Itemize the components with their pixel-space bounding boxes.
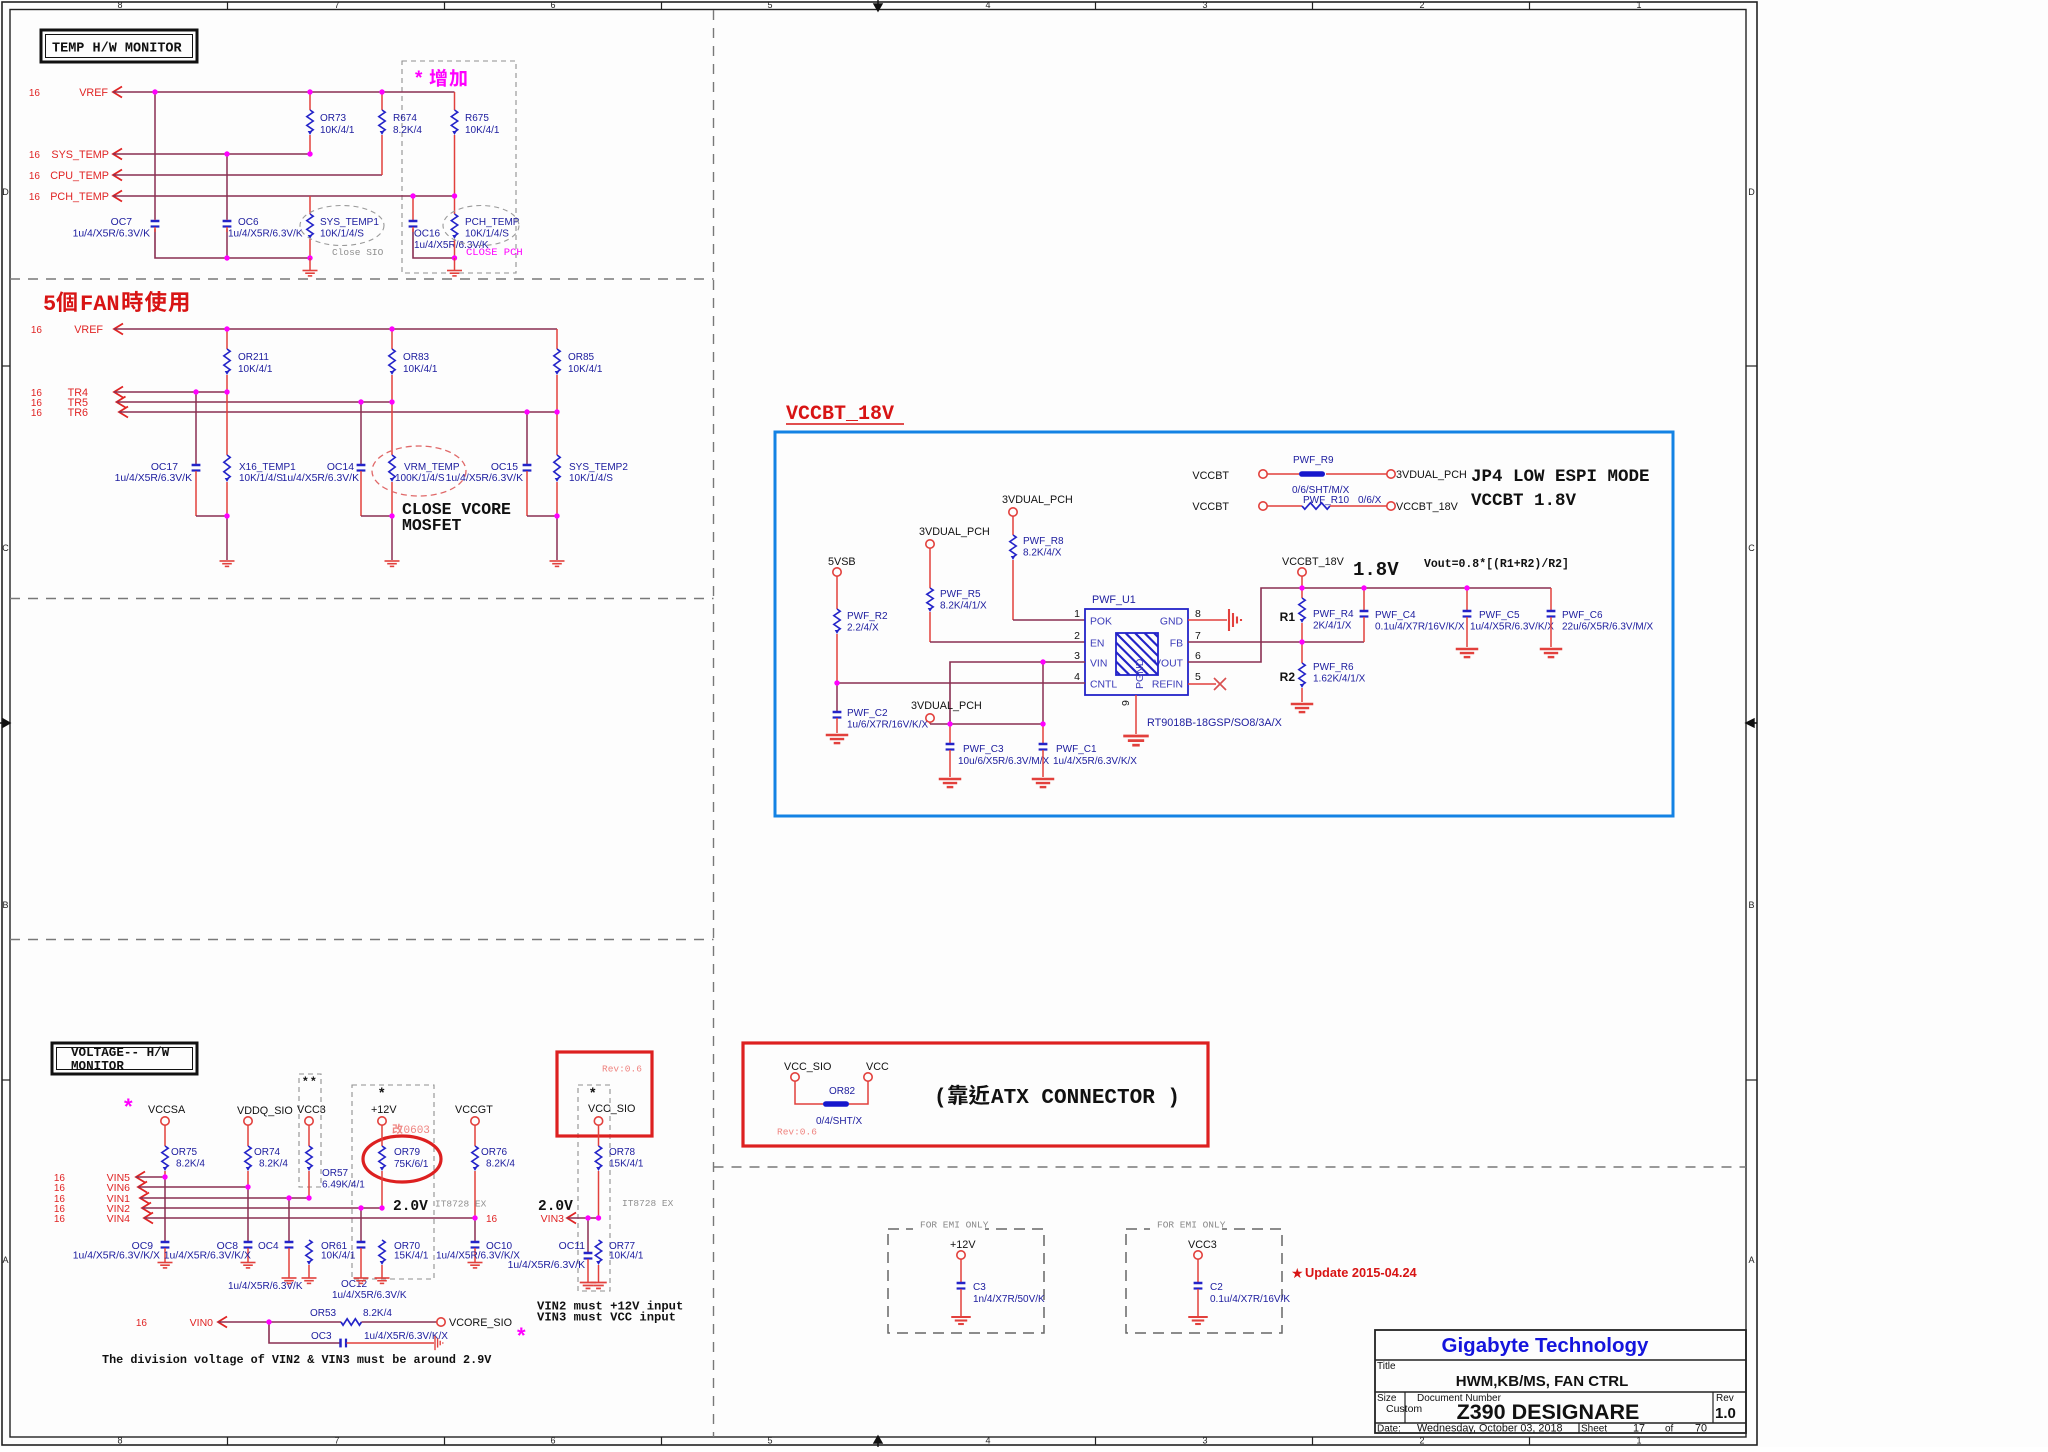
svg-text:1n/4/X7R/50V/K: 1n/4/X7R/50V/K bbox=[973, 1294, 1045, 1305]
resistor OR73 bbox=[307, 92, 355, 154]
svg-text:REFIN: REFIN bbox=[1152, 680, 1183, 691]
title box VOLTAGE-- H/W MONITOR bbox=[52, 1043, 197, 1074]
wire OC6 column bbox=[226, 154, 228, 219]
power-ground symbol (pin8) bbox=[1228, 609, 1230, 631]
svg-text:10K/4/1: 10K/4/1 bbox=[238, 364, 273, 375]
resistor OR82 (0 ohm) bbox=[795, 1081, 868, 1127]
svg-text:of: of bbox=[1665, 1424, 1674, 1435]
svg-text:7: 7 bbox=[1195, 630, 1201, 642]
svg-text:SYS_TEMP: SYS_TEMP bbox=[51, 149, 109, 161]
svg-text:9: 9 bbox=[1120, 700, 1132, 706]
svg-text:OC11: OC11 bbox=[559, 1241, 586, 1252]
svg-text:Wednesday, October 03, 2018: Wednesday, October 03, 2018 bbox=[1417, 1423, 1562, 1435]
svg-text:MOSFET: MOSFET bbox=[402, 516, 462, 535]
wire 3VDUAL bottom rail bbox=[930, 723, 1043, 725]
resistor OR57 bbox=[306, 1125, 365, 1198]
net SYS_TEMP bbox=[29, 149, 310, 162]
net label VCCBT (row1) bbox=[1192, 470, 1267, 482]
svg-text:16: 16 bbox=[54, 1214, 66, 1225]
power VCC3 bbox=[297, 1104, 326, 1125]
resistor SYS_TEMP1 bbox=[307, 196, 380, 258]
svg-text:PWF_R4: PWF_R4 bbox=[1313, 609, 1354, 620]
svg-text:8: 8 bbox=[117, 1436, 122, 1446]
power VCCGT bbox=[455, 1104, 493, 1125]
power +12V (EMI) bbox=[950, 1239, 976, 1259]
ground (OC8) bbox=[241, 1262, 256, 1264]
svg-text:1.0: 1.0 bbox=[1715, 1405, 1736, 1422]
svg-text:The division voltage of VIN2 &: The division voltage of VIN2 & VIN3 must… bbox=[102, 1353, 492, 1367]
svg-text:16: 16 bbox=[29, 192, 41, 203]
wire OC9 column bbox=[164, 1177, 166, 1241]
svg-text:PWF_R9: PWF_R9 bbox=[1293, 455, 1334, 466]
svg-text:PWF_C1: PWF_C1 bbox=[1056, 744, 1097, 755]
resistor OR78 bbox=[595, 1125, 644, 1218]
svg-text:1: 1 bbox=[1074, 608, 1080, 620]
svg-text:★: ★ bbox=[1291, 1265, 1304, 1281]
ground (TEMP right) bbox=[454, 258, 456, 270]
resistor PWF_R2 bbox=[834, 576, 888, 683]
resistor OR74 bbox=[245, 1125, 289, 1187]
svg-text:1: 1 bbox=[1636, 1436, 1641, 1446]
svg-text:Rev:0.6: Rev:0.6 bbox=[777, 1127, 817, 1138]
svg-text:JP4 LOW ESPI MODE: JP4 LOW ESPI MODE bbox=[1471, 467, 1650, 487]
wire OC10 column bbox=[474, 1218, 476, 1241]
svg-text:16: 16 bbox=[54, 1183, 66, 1194]
svg-text:17: 17 bbox=[1633, 1423, 1645, 1435]
svg-text:VCC3: VCC3 bbox=[297, 1104, 326, 1116]
resistor PWF_R8 bbox=[1010, 516, 1064, 620]
svg-text:EN: EN bbox=[1090, 639, 1104, 650]
svg-text:OC14: OC14 bbox=[327, 462, 354, 473]
svg-text:B: B bbox=[1748, 900, 1754, 910]
svg-text:D: D bbox=[1748, 187, 1755, 197]
svg-text:2: 2 bbox=[1419, 0, 1424, 10]
svg-text:D: D bbox=[2, 187, 9, 197]
svg-text:OR211: OR211 bbox=[238, 352, 269, 363]
power 3VDUAL_PCH (PWF_R8) bbox=[1002, 494, 1073, 516]
svg-text:5: 5 bbox=[1195, 671, 1201, 683]
resistor OR70 bbox=[379, 1240, 429, 1278]
svg-text:10K/1/4/S: 10K/1/4/S bbox=[239, 473, 283, 484]
ground (PGND) bbox=[1123, 735, 1149, 738]
resistor PWF_R6 (R2) bbox=[1280, 642, 1366, 702]
resistor OR79 bbox=[379, 1125, 429, 1208]
svg-text:1u/4/X5R/6.3V/K: 1u/4/X5R/6.3V/K bbox=[115, 473, 192, 484]
svg-text:2.0V: 2.0V bbox=[393, 1199, 428, 1215]
svg-text:10K/4/1: 10K/4/1 bbox=[403, 364, 438, 375]
net VIN0 bbox=[136, 1317, 341, 1330]
svg-text:VOLTAGE-- H/W: VOLTAGE-- H/W bbox=[71, 1046, 170, 1060]
wire OC7 column bbox=[154, 92, 156, 219]
svg-text:10K/1/4/S: 10K/1/4/S bbox=[320, 229, 364, 240]
svg-text:(: ( bbox=[934, 1087, 947, 1110]
svg-text:PGND: PGND bbox=[1134, 658, 1146, 689]
note * zeng-jia (magenta) bbox=[415, 68, 467, 89]
svg-text:VIN0: VIN0 bbox=[190, 1317, 214, 1329]
svg-text:16: 16 bbox=[29, 171, 41, 182]
net VIN1 bbox=[54, 1193, 309, 1206]
svg-text:TR6: TR6 bbox=[68, 407, 88, 419]
capacitor PWF_C6 bbox=[1547, 588, 1654, 647]
svg-text:FOR EMI ONLY: FOR EMI ONLY bbox=[1157, 1220, 1226, 1231]
svg-text:VCCBT 1.8V: VCCBT 1.8V bbox=[1471, 491, 1577, 511]
svg-text:Update 2015-04.24: Update 2015-04.24 bbox=[1305, 1265, 1418, 1280]
capacitor PWF_C4 bbox=[1360, 588, 1465, 642]
svg-text:Rev: Rev bbox=[1716, 1393, 1734, 1404]
svg-text:10K/4/1: 10K/4/1 bbox=[609, 1251, 644, 1262]
svg-text:*: * bbox=[124, 1094, 133, 1119]
net VREF (FAN) bbox=[31, 324, 557, 337]
red box (ATX connector note) bbox=[743, 1043, 1208, 1146]
ground (PWF_C5) bbox=[1456, 648, 1479, 650]
svg-text:*: * bbox=[590, 1084, 596, 1100]
svg-text:4: 4 bbox=[985, 1436, 990, 1446]
svg-text:0/4/SHT/X: 0/4/SHT/X bbox=[816, 1116, 862, 1127]
power VCC_SIO bbox=[588, 1103, 635, 1125]
svg-text:CLOSE PCH: CLOSE PCH bbox=[466, 247, 523, 259]
svg-text:3VDUAL_PCH: 3VDUAL_PCH bbox=[919, 526, 990, 538]
junction dots (TEMP) bbox=[152, 89, 457, 260]
svg-text:PCH_TEMP: PCH_TEMP bbox=[465, 217, 520, 228]
svg-text:0/6/X: 0/6/X bbox=[1358, 495, 1382, 506]
ground (PWF_R6) bbox=[1291, 703, 1314, 705]
svg-text:R1: R1 bbox=[1280, 610, 1296, 624]
wire CNTL net bbox=[837, 682, 1085, 684]
capacitor OC14 bbox=[282, 462, 366, 516]
dashed box VCC_SIO column bbox=[578, 1085, 610, 1291]
svg-text:0.1u/4/X7R/16V/K/X: 0.1u/4/X7R/16V/K/X bbox=[1375, 622, 1465, 633]
power 3VDUAL_PCH (PWF_R5) bbox=[919, 526, 990, 548]
svg-text:OC17: OC17 bbox=[151, 462, 178, 473]
power 5VSB bbox=[828, 556, 856, 576]
svg-text:ATX CONNECTOR ): ATX CONNECTOR ) bbox=[991, 1087, 1180, 1110]
svg-text:CNTL: CNTL bbox=[1090, 680, 1117, 691]
wire EN net bbox=[930, 641, 1085, 643]
ground (SYS_TEMP2) bbox=[550, 560, 565, 562]
svg-text:VCC_SIO: VCC_SIO bbox=[784, 1061, 831, 1073]
svg-text:OR75: OR75 bbox=[171, 1147, 198, 1158]
svg-text:10K/1/4/S: 10K/1/4/S bbox=[465, 229, 509, 240]
svg-text:OC3: OC3 bbox=[311, 1331, 332, 1342]
svg-text:PWF_C2: PWF_C2 bbox=[847, 708, 888, 719]
resistor OR83 bbox=[389, 329, 438, 402]
capacitor PWF_C5 bbox=[1463, 588, 1555, 647]
svg-text:PWF_C3: PWF_C3 bbox=[963, 744, 1004, 755]
svg-text:Title: Title bbox=[1377, 1361, 1396, 1372]
svg-text:*: * bbox=[379, 1084, 385, 1100]
power +12V bbox=[371, 1104, 397, 1125]
junction dots (FAN) bbox=[193, 326, 559, 518]
resistor OR77 bbox=[595, 1240, 644, 1282]
svg-text:16: 16 bbox=[136, 1318, 148, 1329]
capacitor OC9 bbox=[73, 1241, 170, 1262]
svg-text:Gigabyte Technology: Gigabyte Technology bbox=[1442, 1334, 1650, 1357]
svg-text:5VSB: 5VSB bbox=[828, 556, 856, 568]
section title VCCBT_18V bbox=[786, 403, 904, 426]
net PCH_TEMP bbox=[29, 191, 455, 204]
capacitor OC10 bbox=[436, 1241, 520, 1262]
frame box (blue) bbox=[775, 432, 1673, 816]
header 5 FAN usage (red) bbox=[43, 291, 188, 317]
svg-text:VCCBT: VCCBT bbox=[1192, 470, 1229, 482]
svg-text:VCC_SIO: VCC_SIO bbox=[588, 1103, 635, 1115]
svg-text:POK: POK bbox=[1090, 617, 1112, 628]
junction dots (VOLTAGE) bbox=[162, 1174, 601, 1220]
svg-text:8: 8 bbox=[117, 0, 122, 10]
svg-text:0.1u/4/X7R/16V/K: 0.1u/4/X7R/16V/K bbox=[1210, 1294, 1290, 1305]
svg-text:IT8728 EX: IT8728 EX bbox=[622, 1198, 674, 1209]
wire FB net bbox=[1188, 641, 1364, 643]
svg-text:5: 5 bbox=[767, 1436, 772, 1446]
resistor OR85 bbox=[554, 329, 603, 412]
svg-text:X16_TEMP1: X16_TEMP1 bbox=[239, 462, 296, 473]
svg-text:VDDQ_SIO: VDDQ_SIO bbox=[237, 1105, 293, 1117]
wire GND pin8 lead bbox=[1188, 619, 1227, 621]
svg-text:CPU_TEMP: CPU_TEMP bbox=[50, 170, 109, 182]
svg-text:1u/4/X5R/6.3V/K/X: 1u/4/X5R/6.3V/K/X bbox=[164, 1251, 251, 1262]
note VIN2/VIN3 requirement bbox=[537, 1300, 683, 1325]
ground (OC10) bbox=[468, 1262, 483, 1264]
svg-text:SYS_TEMP1: SYS_TEMP1 bbox=[320, 217, 379, 228]
svg-text:OR76: OR76 bbox=[481, 1147, 508, 1158]
svg-text:5: 5 bbox=[767, 0, 772, 10]
svg-text:16: 16 bbox=[486, 1214, 498, 1225]
svg-text:+12V: +12V bbox=[371, 1104, 397, 1116]
svg-text:16: 16 bbox=[29, 150, 41, 161]
svg-text:VCCGT: VCCGT bbox=[455, 1104, 493, 1116]
net CPU_TEMP bbox=[29, 170, 382, 183]
svg-text:3: 3 bbox=[1074, 650, 1080, 662]
net VIN2 bbox=[54, 1203, 382, 1216]
wire FAN bottom rails bbox=[196, 515, 227, 517]
svg-text:6: 6 bbox=[1195, 650, 1201, 662]
capacitor OC8 bbox=[164, 1241, 253, 1262]
svg-text:Vout=0.8*[(R1+R2)/R2]: Vout=0.8*[(R1+R2)/R2] bbox=[1424, 558, 1569, 571]
svg-text:1u/4/X5R/6.3V/K: 1u/4/X5R/6.3V/K bbox=[508, 1260, 585, 1271]
svg-text:RT9018B-18GSP/SO8/3A/X: RT9018B-18GSP/SO8/3A/X bbox=[1147, 717, 1282, 729]
red box around VCC_SIO bbox=[557, 1052, 652, 1136]
dashed box VCC3 column bbox=[299, 1074, 321, 1187]
capacitor OC3 bbox=[311, 1331, 448, 1347]
net VIN6 bbox=[54, 1182, 248, 1195]
net VREF (TEMP) bbox=[29, 87, 455, 100]
svg-text:OR73: OR73 bbox=[320, 113, 347, 124]
svg-text:OR83: OR83 bbox=[403, 352, 430, 363]
svg-text:1: 1 bbox=[1636, 0, 1641, 10]
svg-text:OR74: OR74 bbox=[254, 1147, 281, 1158]
junction dot (VIN0) bbox=[266, 1319, 271, 1324]
capacitor OC7 bbox=[73, 217, 160, 240]
svg-text:3: 3 bbox=[1202, 1436, 1207, 1446]
svg-text:2.2/4/X: 2.2/4/X bbox=[847, 623, 879, 634]
resistor PWF_R10 (0 ohm) bbox=[1267, 495, 1387, 509]
svg-text:PWF_R8: PWF_R8 bbox=[1023, 536, 1064, 547]
ground (OC12) bbox=[354, 1277, 369, 1279]
ground (PWF_C1) bbox=[1032, 778, 1055, 780]
capacitor C3 bbox=[957, 1259, 1045, 1316]
svg-text:HWM,KB/MS, FAN CTRL: HWM,KB/MS, FAN CTRL bbox=[1456, 1373, 1628, 1390]
svg-text:16: 16 bbox=[31, 325, 43, 336]
wire OC17 column bbox=[195, 392, 197, 464]
power VDDQ_SIO bbox=[237, 1105, 293, 1125]
svg-text:VCCBT_18V: VCCBT_18V bbox=[1396, 501, 1459, 513]
capacitor OC12 bbox=[332, 1242, 407, 1301]
svg-text:VCCBT_18V: VCCBT_18V bbox=[786, 403, 894, 426]
svg-text:10K/4/1: 10K/4/1 bbox=[321, 1251, 356, 1262]
dashed box +12V column bbox=[352, 1085, 434, 1279]
svg-text:16: 16 bbox=[29, 88, 41, 99]
svg-text:VRM_TEMP: VRM_TEMP bbox=[404, 462, 460, 473]
ground (C2) bbox=[1188, 1316, 1208, 1318]
net label VCC (ATX) bbox=[864, 1061, 889, 1081]
svg-text:1u/4/X5R/6.3V/K/X: 1u/4/X5R/6.3V/K/X bbox=[1053, 756, 1137, 767]
note CLOSE VCORE MOSFET bbox=[402, 500, 511, 535]
ground (X16_TEMP1) bbox=[220, 560, 235, 562]
net label VCC_SIO (ATX) bbox=[784, 1061, 831, 1081]
resistor SYS_TEMP2 bbox=[554, 412, 629, 516]
resistor R674 bbox=[379, 92, 423, 175]
svg-text:1.62K/4/1/X: 1.62K/4/1/X bbox=[1313, 674, 1366, 685]
svg-text:IT8728 EX: IT8728 EX bbox=[435, 1199, 487, 1210]
no-connect X (REFIN) bbox=[1214, 678, 1226, 690]
capacitor PWF_C2 bbox=[833, 683, 929, 733]
wire bottom rail right (TEMP) bbox=[413, 229, 455, 258]
wire REFIN stub bbox=[1188, 683, 1216, 685]
ellipse around PCH_TEMP bbox=[443, 206, 519, 246]
ground (OC3 sideways) bbox=[434, 1336, 436, 1350]
svg-text:C2: C2 bbox=[1210, 1282, 1223, 1293]
svg-text:8.2K/4/1/X: 8.2K/4/1/X bbox=[940, 601, 987, 612]
wire OC12 column bbox=[360, 1208, 362, 1241]
net VIN4 bbox=[54, 1213, 498, 1226]
svg-text:7: 7 bbox=[334, 1436, 339, 1446]
net TR4 bbox=[31, 387, 227, 400]
wire VOUT to 1.8V rail bbox=[1188, 588, 1551, 662]
svg-text:Custom: Custom bbox=[1386, 1403, 1422, 1415]
wire OC14 column bbox=[360, 402, 362, 464]
svg-text:TEMP H/W MONITOR: TEMP H/W MONITOR bbox=[52, 42, 183, 57]
capacitor OC15 bbox=[446, 462, 532, 516]
svg-text:OC15: OC15 bbox=[491, 462, 518, 473]
power 3VDUAL_PCH (row1 right) bbox=[1387, 469, 1467, 481]
svg-text:PCH_TEMP: PCH_TEMP bbox=[50, 191, 109, 203]
svg-text:OC16: OC16 bbox=[414, 229, 441, 240]
svg-text:15K/4/1: 15K/4/1 bbox=[394, 1251, 429, 1262]
capacitor C2 bbox=[1194, 1259, 1291, 1316]
svg-text:* *: * * bbox=[303, 1074, 316, 1088]
ground (PWF_C6) bbox=[1540, 648, 1563, 650]
svg-text:PWF_C6: PWF_C6 bbox=[1562, 610, 1603, 621]
note Update 2015-04.24 bbox=[1291, 1265, 1418, 1281]
svg-text:A: A bbox=[1748, 1255, 1754, 1265]
svg-text:PWF_R5: PWF_R5 bbox=[940, 589, 981, 600]
svg-text:PWF_R6: PWF_R6 bbox=[1313, 662, 1354, 673]
svg-text:B: B bbox=[2, 900, 8, 910]
svg-text:OR85: OR85 bbox=[568, 352, 595, 363]
power VCCBT_18V (row2 right) bbox=[1387, 501, 1459, 513]
dashed box FOR EMI ONLY (right) bbox=[1126, 1229, 1282, 1333]
svg-text:4: 4 bbox=[985, 0, 990, 10]
power VCCBT_18V node bbox=[1282, 556, 1345, 588]
svg-text:1u/6/X7R/16V/K/X: 1u/6/X7R/16V/K/X bbox=[847, 720, 928, 731]
resistor VRM_TEMP bbox=[389, 402, 460, 516]
svg-text:FAN: FAN bbox=[80, 292, 120, 317]
net VIN3 bbox=[541, 1213, 599, 1226]
svg-text:OR78: OR78 bbox=[609, 1147, 636, 1158]
resistor OR75 bbox=[162, 1125, 206, 1177]
ground (OC11 OR77 shared) bbox=[580, 1282, 597, 1284]
resistor PCH_TEMP bbox=[451, 196, 519, 258]
wire VIN net bbox=[950, 662, 1085, 724]
svg-text:VCCSA: VCCSA bbox=[148, 1104, 186, 1116]
ground (OC4) bbox=[282, 1277, 297, 1279]
title block bbox=[1375, 1330, 1746, 1435]
note JP4 LOW ESPI MODE bbox=[1471, 467, 1650, 511]
ground (C3) bbox=[951, 1316, 971, 1318]
svg-text:15K/4/1: 15K/4/1 bbox=[609, 1159, 644, 1170]
junction dots (VCCBT) bbox=[834, 585, 1469, 726]
wire OC15 column bbox=[526, 412, 528, 464]
svg-text:OC4: OC4 bbox=[258, 1241, 279, 1252]
svg-text:1u/4/X5R/6.3V/K: 1u/4/X5R/6.3V/K bbox=[228, 1281, 303, 1292]
svg-text:VREF: VREF bbox=[74, 324, 103, 336]
net TR6 bbox=[31, 407, 557, 420]
ground (TEMP left) bbox=[309, 258, 311, 270]
svg-text:8: 8 bbox=[1195, 608, 1201, 620]
svg-text:1u/4/X5R/6.3V/K: 1u/4/X5R/6.3V/K bbox=[73, 229, 150, 240]
svg-text:VIN3 must VCC input: VIN3 must VCC input bbox=[537, 1311, 676, 1325]
svg-text:C: C bbox=[1748, 543, 1755, 553]
svg-text:8.2K/4: 8.2K/4 bbox=[259, 1159, 288, 1170]
resistor OR76 bbox=[472, 1125, 516, 1218]
capacitor OC11 bbox=[508, 1241, 593, 1282]
svg-text:1.8V: 1.8V bbox=[1353, 559, 1399, 581]
svg-text:10K/4/1: 10K/4/1 bbox=[320, 125, 355, 136]
svg-text:6: 6 bbox=[550, 0, 555, 10]
resistor OR211 bbox=[224, 329, 273, 392]
ellipse around SYS_TEMP1 bbox=[300, 206, 384, 246]
ground (PWF_C2) bbox=[826, 734, 849, 736]
svg-text:VCC: VCC bbox=[866, 1061, 889, 1073]
svg-text:VCORE_SIO: VCORE_SIO bbox=[449, 1317, 512, 1329]
svg-text:1u/4/X5R/6.3V/K: 1u/4/X5R/6.3V/K bbox=[332, 1290, 407, 1301]
wire bottom rail left (TEMP) bbox=[155, 229, 310, 258]
svg-text:VCCBT_18V: VCCBT_18V bbox=[1282, 556, 1345, 568]
svg-text:OR57: OR57 bbox=[322, 1168, 349, 1179]
svg-text:4: 4 bbox=[1074, 671, 1080, 683]
svg-text:2: 2 bbox=[1419, 1436, 1424, 1446]
svg-text:VCC3: VCC3 bbox=[1188, 1239, 1217, 1251]
svg-text:Sheet: Sheet bbox=[1581, 1424, 1607, 1435]
svg-text:VIN4: VIN4 bbox=[107, 1213, 131, 1225]
svg-text:VCCBT: VCCBT bbox=[1192, 501, 1229, 513]
svg-text:PWF_R2: PWF_R2 bbox=[847, 611, 888, 622]
ground (OR61) bbox=[302, 1277, 317, 1279]
svg-text:OR79: OR79 bbox=[394, 1147, 421, 1158]
svg-text:PWF_R10: PWF_R10 bbox=[1303, 495, 1350, 506]
svg-text:FOR EMI ONLY: FOR EMI ONLY bbox=[920, 1220, 989, 1231]
svg-text:3: 3 bbox=[1202, 0, 1207, 10]
svg-text:3VDUAL_PCH: 3VDUAL_PCH bbox=[1396, 469, 1467, 481]
svg-text:8.2K/4: 8.2K/4 bbox=[363, 1308, 392, 1319]
svg-text:10K/4/1: 10K/4/1 bbox=[465, 125, 500, 136]
svg-text:Close SIO: Close SIO bbox=[332, 247, 384, 258]
svg-text:SYS_TEMP2: SYS_TEMP2 bbox=[569, 462, 628, 473]
svg-text:8.2K/4: 8.2K/4 bbox=[176, 1159, 205, 1170]
svg-text:2K/4/1/X: 2K/4/1/X bbox=[1313, 621, 1352, 632]
power 3VDUAL_PCH (bottom) bbox=[911, 700, 982, 724]
net TR5 bbox=[31, 397, 392, 410]
